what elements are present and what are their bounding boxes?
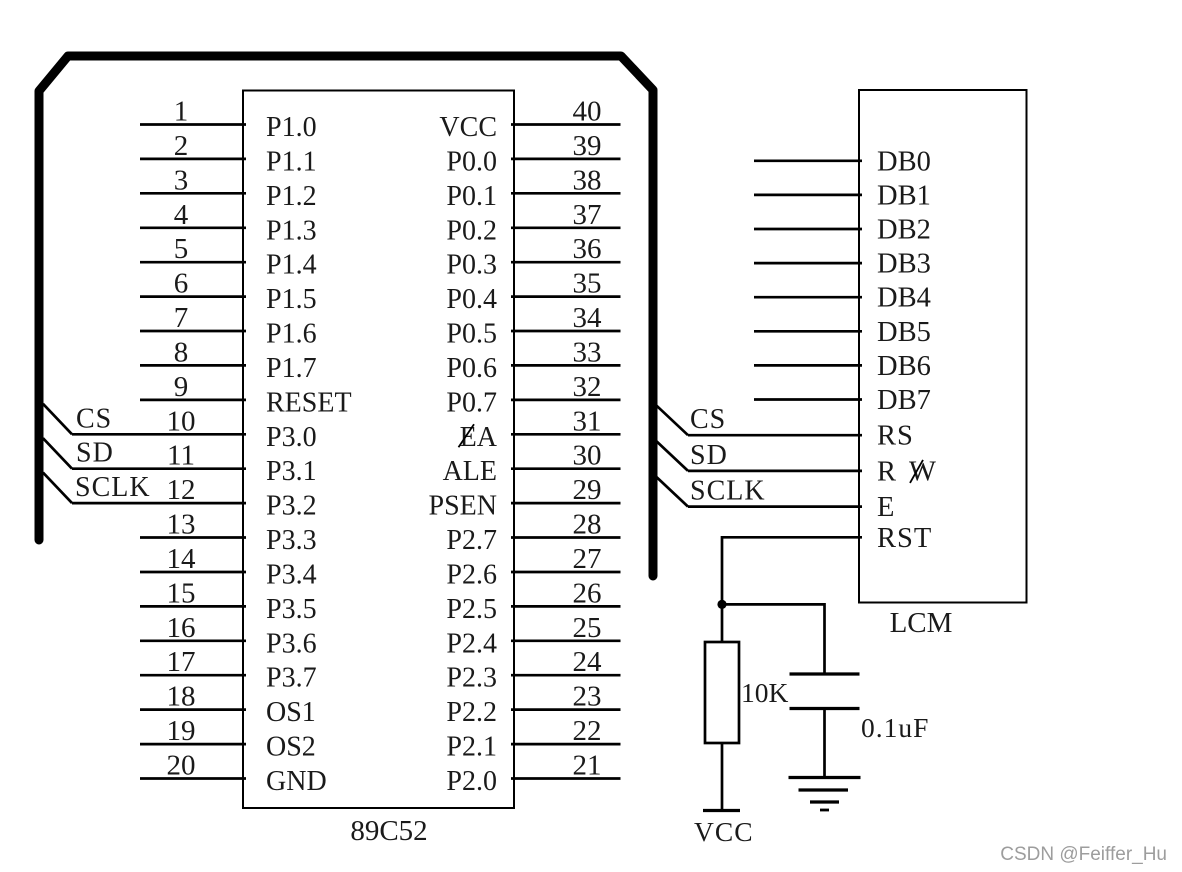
svg-text:P2.7: P2.7 <box>446 525 497 556</box>
svg-text:P2.0: P2.0 <box>446 766 497 797</box>
svg-text:DB3: DB3 <box>877 249 931 280</box>
wire pin 3 <box>140 192 246 195</box>
wire pin 18 <box>140 708 246 711</box>
wire pin 21 <box>511 777 621 780</box>
wire pin 17 <box>140 674 246 677</box>
svg-text:P1.3: P1.3 <box>266 215 317 246</box>
wire pin 27 <box>511 571 621 574</box>
svg-text:P0.2: P0.2 <box>446 215 497 246</box>
svg-text:21: 21 <box>573 750 602 782</box>
wire pin 6 <box>140 295 246 298</box>
svg-text:20: 20 <box>167 750 196 782</box>
svg-text:P1.0: P1.0 <box>266 112 317 143</box>
svg-text:P3.4: P3.4 <box>266 560 317 591</box>
wire DB4 <box>754 296 862 299</box>
svg-text:P2.3: P2.3 <box>446 663 497 694</box>
svg-text:P2.5: P2.5 <box>446 594 497 625</box>
wire pin 40 <box>511 123 621 126</box>
wire pin 5 <box>140 261 246 264</box>
svg-text:DB5: DB5 <box>877 317 931 348</box>
svg-text:LCM: LCM <box>890 607 953 639</box>
svg-text:DB2: DB2 <box>877 215 931 246</box>
wire SD branch diagonal (left) <box>43 438 72 469</box>
svg-text:RESET: RESET <box>266 387 352 418</box>
wire DB7 <box>754 398 862 401</box>
node junction (RST/R/C) <box>717 600 726 609</box>
svg-text:CSDN @Feiffer_Hu: CSDN @Feiffer_Hu <box>1000 844 1167 865</box>
svg-text:33: 33 <box>573 336 602 368</box>
svg-text:P1.7: P1.7 <box>266 353 317 384</box>
wire pin 8 <box>140 364 246 367</box>
svg-text:P2.1: P2.1 <box>446 732 497 763</box>
svg-text:VCC: VCC <box>439 112 497 143</box>
svg-text:DB7: DB7 <box>877 385 931 416</box>
svg-text:18: 18 <box>167 681 196 713</box>
wire pin 11 <box>72 467 246 470</box>
svg-text:PSEN: PSEN <box>429 491 497 522</box>
capacitor C1 bottom plate <box>790 707 860 710</box>
power symbol VCC bar <box>703 809 740 812</box>
wire resistor to VCC <box>721 743 724 809</box>
svg-text:19: 19 <box>167 715 196 747</box>
wire pin 20 <box>140 777 246 780</box>
svg-text:DB0: DB0 <box>877 146 931 177</box>
wire pin 37 <box>511 226 621 229</box>
svg-text:32: 32 <box>573 371 602 403</box>
svg-text:14: 14 <box>167 543 197 575</box>
svg-text:OS1: OS1 <box>266 697 316 728</box>
svg-text:9: 9 <box>174 371 189 403</box>
wire pin 4 <box>140 226 246 229</box>
wire pin 7 <box>140 330 246 333</box>
svg-text:SD: SD <box>76 438 114 469</box>
wire pin 39 <box>511 158 621 161</box>
wire DB0 <box>754 159 862 162</box>
svg-text:10K: 10K <box>741 677 789 708</box>
svg-text:GND: GND <box>266 766 327 797</box>
svg-text:DB4: DB4 <box>877 283 931 314</box>
svg-text:P1.2: P1.2 <box>266 181 317 212</box>
svg-text:22: 22 <box>573 715 602 747</box>
wire pin 2 <box>140 158 246 161</box>
svg-text:15: 15 <box>167 577 196 609</box>
wire capacitor to ground <box>823 709 826 778</box>
wire harness cable (thick polyline) <box>39 56 653 576</box>
pin label /EA (pin 31, active-low slash) <box>459 422 498 453</box>
wire pin 12 <box>72 502 246 505</box>
svg-text:SCLK: SCLK <box>690 476 766 507</box>
svg-text:28: 28 <box>573 509 602 541</box>
svg-text:30: 30 <box>573 440 602 472</box>
svg-text:DB1: DB1 <box>877 180 931 211</box>
wire pin 31 <box>511 433 621 436</box>
svg-text:10: 10 <box>167 405 196 437</box>
svg-text:37: 37 <box>573 199 602 231</box>
wire RST to junction <box>722 537 862 604</box>
svg-text:OS2: OS2 <box>266 732 316 763</box>
svg-text:3: 3 <box>174 164 189 196</box>
svg-text:DB6: DB6 <box>877 351 931 382</box>
wire E net (right) <box>688 505 862 508</box>
svg-text:29: 29 <box>573 474 602 506</box>
wire DB6 <box>754 364 862 367</box>
resistor R1 10K body <box>705 642 739 743</box>
svg-text:17: 17 <box>167 646 196 678</box>
wire R/W branch diagonal (right) <box>655 440 688 471</box>
wire pin 30 <box>511 467 621 470</box>
svg-text:SD: SD <box>690 440 728 471</box>
wire pin 25 <box>511 639 621 642</box>
svg-text:40: 40 <box>573 96 602 128</box>
svg-text:26: 26 <box>573 577 602 609</box>
wire pin 1 <box>140 123 246 126</box>
svg-text:P1.5: P1.5 <box>266 284 317 315</box>
wire CS branch diagonal (left) <box>43 404 72 435</box>
svg-text:39: 39 <box>573 130 602 162</box>
svg-text:24: 24 <box>573 646 603 678</box>
wire pin 34 <box>511 330 621 333</box>
svg-text:P0.3: P0.3 <box>446 250 497 281</box>
svg-text:7: 7 <box>174 302 189 334</box>
wire pin 26 <box>511 605 621 608</box>
svg-text:CS: CS <box>76 403 112 434</box>
wire pin 38 <box>511 192 621 195</box>
wire junction to resistor <box>721 604 724 643</box>
svg-text:0.1uF: 0.1uF <box>861 712 929 743</box>
wire pin 23 <box>511 708 621 711</box>
svg-text:P1.1: P1.1 <box>266 146 317 177</box>
svg-text:P3.3: P3.3 <box>266 525 317 556</box>
wire pin 24 <box>511 674 621 677</box>
wire pin 35 <box>511 295 621 298</box>
wire pin 13 <box>140 536 246 539</box>
svg-text:1: 1 <box>174 96 189 128</box>
svg-text:16: 16 <box>167 612 196 644</box>
IC U1 89C52 body <box>243 91 514 809</box>
svg-text:23: 23 <box>573 681 602 713</box>
svg-text:34: 34 <box>573 302 603 334</box>
svg-text:35: 35 <box>573 268 602 300</box>
svg-text:31: 31 <box>573 405 602 437</box>
svg-text:2: 2 <box>174 130 189 162</box>
wire SCLK branch diagonal (left) <box>43 473 72 504</box>
capacitor C1 top plate <box>790 672 860 675</box>
svg-text:6: 6 <box>174 268 189 300</box>
ground symbol <box>789 778 861 811</box>
svg-text:CS: CS <box>690 404 726 435</box>
svg-text:13: 13 <box>167 509 196 541</box>
svg-text:SCLK: SCLK <box>75 472 151 503</box>
svg-text:R: R <box>877 456 896 487</box>
svg-text:38: 38 <box>573 164 602 196</box>
svg-text:P3.0: P3.0 <box>266 422 317 453</box>
svg-text:E: E <box>877 492 894 523</box>
wire junction to capacitor <box>722 604 825 672</box>
svg-text:8: 8 <box>174 336 189 368</box>
wire DB5 <box>754 330 862 333</box>
svg-text:P1.6: P1.6 <box>266 319 317 350</box>
svg-text:P0.5: P0.5 <box>446 319 497 350</box>
svg-text:27: 27 <box>573 543 602 575</box>
svg-text:12: 12 <box>167 474 196 506</box>
wire R/W net (right) <box>688 470 862 473</box>
svg-text:P3.7: P3.7 <box>266 663 317 694</box>
wire pin 29 <box>511 502 621 505</box>
wire RS branch diagonal (right) <box>655 404 688 435</box>
wire pin 28 <box>511 536 621 539</box>
wire pin 19 <box>140 743 246 746</box>
svg-text:89C52: 89C52 <box>350 815 427 847</box>
svg-text:P3.5: P3.5 <box>266 594 317 625</box>
wire pin 16 <box>140 639 246 642</box>
wire pin 33 <box>511 364 621 367</box>
svg-text:36: 36 <box>573 233 602 265</box>
svg-text:4: 4 <box>174 199 189 231</box>
wire DB2 <box>754 228 862 231</box>
wire RS net (right) <box>688 434 862 437</box>
wire pin 15 <box>140 605 246 608</box>
svg-text:P3.1: P3.1 <box>266 456 317 487</box>
svg-text:P1.4: P1.4 <box>266 250 317 281</box>
wire pin 14 <box>140 571 246 574</box>
wire DB1 <box>754 194 862 197</box>
wire E branch diagonal (right) <box>655 476 688 507</box>
wire pin 32 <box>511 399 621 402</box>
svg-text:RST: RST <box>877 523 932 554</box>
svg-text:P0.4: P0.4 <box>446 284 497 315</box>
wire pin 9 <box>140 399 246 402</box>
svg-text:RS: RS <box>877 421 914 452</box>
wire pin 36 <box>511 261 621 264</box>
svg-text:P0.7: P0.7 <box>446 387 497 418</box>
svg-text:ALE: ALE <box>443 456 497 487</box>
svg-text:11: 11 <box>167 440 195 472</box>
wire DB3 <box>754 262 862 265</box>
svg-text:P3.6: P3.6 <box>266 628 317 659</box>
wire pin 22 <box>511 743 621 746</box>
wire pin 10 <box>72 433 246 436</box>
svg-text:P2.2: P2.2 <box>446 697 497 728</box>
LCM module body <box>859 90 1027 603</box>
pin label R/W (slash over W) <box>877 456 936 487</box>
svg-text:25: 25 <box>573 612 602 644</box>
svg-text:P3.2: P3.2 <box>266 491 317 522</box>
svg-text:P2.6: P2.6 <box>446 560 497 591</box>
svg-text:VCC: VCC <box>694 816 754 847</box>
svg-text:P0.0: P0.0 <box>446 146 497 177</box>
svg-text:5: 5 <box>174 233 189 265</box>
svg-text:P2.4: P2.4 <box>446 628 497 659</box>
svg-text:P0.1: P0.1 <box>446 181 497 212</box>
svg-text:P0.6: P0.6 <box>446 353 497 384</box>
